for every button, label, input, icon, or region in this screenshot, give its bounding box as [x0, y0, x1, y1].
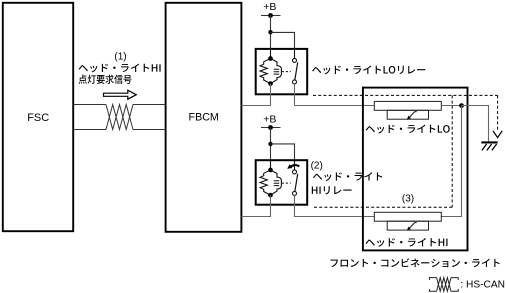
HS-CAN legend symbol — [429, 278, 458, 292]
twisted pair symbol — [106, 105, 133, 130]
svg-text:FSC: FSC — [27, 112, 49, 124]
wire CAN pair bottom — [74, 129, 165, 131]
dashed flow line bottom — [312, 206, 452, 208]
label lighting request signal line2 — [79, 75, 132, 84]
relay HI switch lead — [294, 160, 296, 170]
relay LO resistor — [260, 59, 270, 84]
svg-text:+B: +B — [263, 1, 276, 13]
signal direction arrow — [104, 90, 137, 99]
ground — [481, 142, 497, 150]
junction node 2 — [268, 142, 272, 146]
relay HI switch blade — [295, 174, 298, 191]
FBCM box — [166, 3, 242, 232]
junction node 3 — [459, 103, 464, 108]
relay LO label — [312, 66, 425, 75]
front combination light label — [330, 258, 499, 267]
wire lamp LO to junction — [441, 105, 461, 107]
dashed flow line to ground — [497, 95, 499, 131]
lamp headlight LO — [374, 101, 441, 120]
relay HI resistor — [260, 170, 270, 195]
relay LO contact bottom — [293, 80, 297, 84]
relay HI coil-switch dashed link — [282, 182, 291, 184]
wire relay LO coil to FBCM — [241, 84, 270, 106]
wire junction to ground — [462, 106, 489, 142]
relay HI node bottom — [268, 193, 273, 198]
svg-text:(1): (1) — [114, 51, 126, 62]
relay LO coil lead — [270, 49, 272, 59]
relay LO coil-switch dashed link — [282, 71, 291, 73]
front combination light box — [363, 88, 468, 251]
junction node 1 — [268, 30, 272, 34]
relay LO switch blade — [295, 62, 298, 79]
relay LO contact top — [293, 58, 297, 62]
svg-text:FBCM: FBCM — [189, 112, 219, 124]
relay LO node bottom — [268, 81, 273, 86]
wire relay HI coil to FBCM — [241, 195, 270, 216]
relay HI label line1 — [313, 172, 382, 181]
relay HI coil lead — [270, 160, 272, 170]
relay LO box — [256, 49, 308, 94]
relay LO coil — [271, 59, 282, 84]
relay HI label line2 — [312, 186, 352, 194]
+B power 2 — [261, 114, 281, 130]
relay HI contact bottom — [293, 191, 297, 195]
relay HI node top — [268, 168, 273, 173]
svg-text:+B: +B — [263, 114, 276, 126]
lamp LO label — [366, 125, 450, 134]
lamp headlight HI — [374, 212, 441, 231]
relay HI contact top — [293, 170, 297, 174]
FSC box — [3, 3, 73, 231]
+B power 1 — [261, 1, 281, 18]
relay LO node top — [268, 56, 273, 61]
wire relay LO switch to lamp LO — [295, 84, 375, 106]
lamp HI label — [365, 238, 447, 247]
label headlight HI request line1 — [79, 64, 161, 73]
relay HI box — [256, 160, 308, 205]
svg-text:(2): (2) — [311, 161, 323, 172]
relay HI coil — [271, 170, 282, 195]
dashed flow line top — [313, 94, 498, 96]
wire +B to relay HI coil — [270, 128, 272, 161]
wire branch to relay HI switch — [271, 144, 295, 160]
wire CAN pair top — [74, 104, 165, 106]
relay HI actuation arrow — [287, 164, 299, 169]
svg-text:: HS-CAN: : HS-CAN — [460, 280, 505, 291]
svg-text:(3): (3) — [402, 194, 414, 205]
wire relay HI switch to lamp HI — [295, 195, 375, 216]
wire +B to relay LO coil — [270, 16, 272, 49]
dashed flow arrowhead — [493, 131, 502, 138]
wire branch to relay LO switch — [271, 32, 295, 49]
relay LO switch lead — [294, 49, 296, 58]
wire junction to lamp HI — [441, 106, 462, 217]
dashed flow line right vertical — [451, 95, 453, 207]
